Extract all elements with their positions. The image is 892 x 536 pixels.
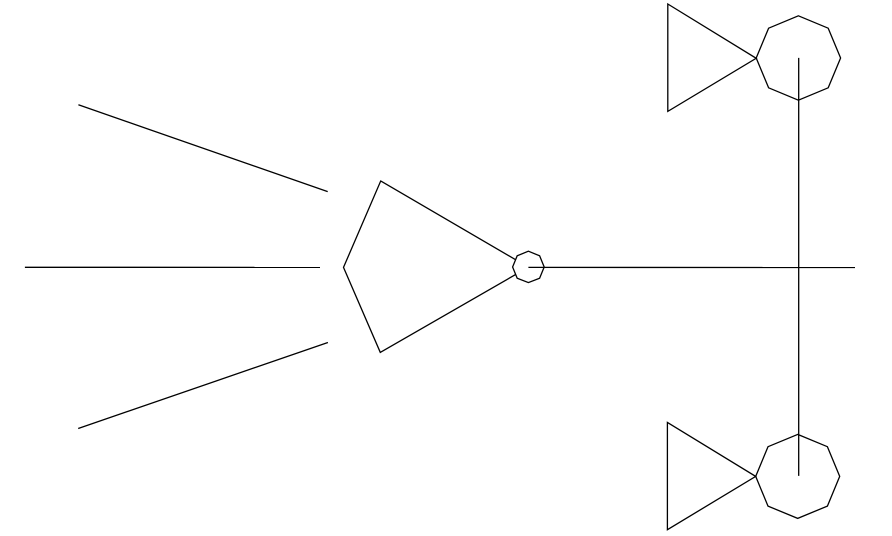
wire: input 1 (top-left slanted) — [78, 105, 327, 192]
wire: input 2 (middle-left horizontal) — [25, 266, 320, 268]
wire: input 3 (bottom-left slanted) — [78, 343, 328, 429]
inverter triangle U2 (top arrowhead) — [668, 4, 756, 111]
node circle N2 (bottom octagon) — [756, 434, 840, 518]
output bubble (small octagon) on G1 — [513, 251, 545, 282]
inverter triangle U3 (bottom arrowhead) — [667, 422, 755, 529]
wire: output (horizontal from bubble center to right) — [528, 266, 855, 268]
node circle N1 (top octagon) — [756, 16, 840, 100]
gate G1 body (diamond arrowhead) — [344, 181, 529, 352]
wire: vertical bus between N1 and N2 centers — [798, 58, 800, 476]
